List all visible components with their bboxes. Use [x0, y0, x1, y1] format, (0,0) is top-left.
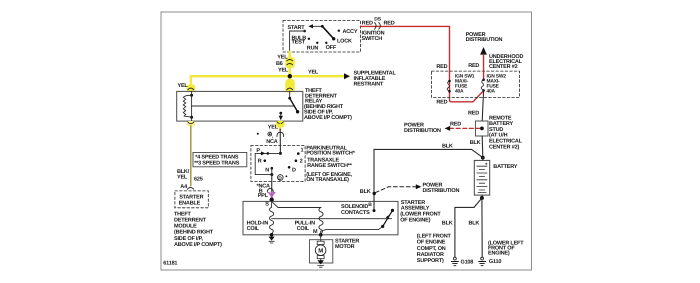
wire BLK horizontal to battery — [374, 144, 483, 158]
svg-text:DS: DS — [374, 17, 381, 23]
svg-text:B6: B6 — [276, 61, 283, 67]
svg-text:DISTRIBUTION: DISTRIBUTION — [404, 128, 441, 134]
svg-text:R: R — [258, 159, 262, 165]
svg-text:OF ENGINE): OF ENGINE) — [400, 218, 430, 224]
battery — [474, 158, 517, 195]
note box 4 speed trans — [193, 153, 247, 167]
svg-text:ENABLE: ENABLE — [179, 201, 201, 207]
yellow horizontal wire to SIR — [191, 75, 344, 77]
contact R — [258, 159, 266, 165]
wire from START contact to B6 terminal — [290, 31, 305, 52]
svg-text:SWITCH: SWITCH — [362, 36, 383, 42]
hold-in coil ground — [269, 233, 275, 243]
svg-text:RUN: RUN — [307, 46, 319, 52]
svg-text:40A: 40A — [455, 88, 464, 94]
starter motor ground — [317, 260, 324, 267]
svg-text:OF ENGINE: OF ENGINE — [417, 240, 446, 246]
power distribution dashed branch at starter — [376, 183, 460, 195]
starter enable dashed box — [175, 191, 208, 208]
solenoid contacts arm — [381, 209, 394, 228]
node junction on yellow wire — [288, 74, 292, 78]
svg-text:625: 625 — [194, 176, 203, 182]
contact D — [288, 166, 296, 173]
svg-text:COIL: COIL — [247, 226, 260, 232]
svg-text:MOTOR: MOTOR — [335, 244, 355, 250]
svg-text:YEL: YEL — [178, 83, 189, 89]
wire from switch to starter S terminal — [271, 175, 273, 193]
svg-text:40A: 40A — [487, 88, 496, 94]
wire S to pull-in coil — [272, 201, 321, 207]
wire BLK from fuse 2 to remote battery stud — [482, 90, 483, 121]
wire from relay to park/neutral switch — [279, 129, 281, 153]
svg-text:P: P — [256, 148, 260, 154]
starter assembly box — [243, 201, 398, 234]
svg-text:DISTRIBUTION: DISTRIBUTION — [466, 37, 503, 43]
yellow drop to relay switch — [287, 76, 293, 91]
svg-text:CENTER #2): CENTER #2) — [489, 144, 519, 150]
circled D indicator — [278, 175, 288, 181]
svg-text:2: 2 — [300, 159, 303, 165]
svg-text:N: N — [265, 168, 269, 174]
svg-text:BLK: BLK — [442, 144, 453, 150]
svg-text:D: D — [292, 167, 296, 173]
connector B6 — [276, 54, 293, 73]
wire from stud to battery junction — [481, 136, 484, 158]
relay internal wire to switch — [192, 105, 294, 107]
power distribution arrow (top) — [466, 32, 503, 80]
svg-text:CENTER #2: CENTER #2 — [489, 64, 518, 70]
svg-text:M: M — [318, 247, 323, 254]
fuse IGN SW2 MAXI-FUSE 40A — [481, 74, 506, 95]
node S terminal junction — [270, 198, 274, 202]
svg-text:TEST: TEST — [292, 40, 306, 46]
relay coil — [183, 91, 193, 121]
svg-text:BLK: BLK — [360, 189, 371, 195]
wire BLK/YEL 625 to theft deterrent module — [177, 126, 203, 186]
svg-text:RANGE SWITCH**: RANGE SWITCH** — [307, 163, 353, 169]
svg-text:SIDE OF I/P,: SIDE OF I/P, — [174, 236, 203, 242]
wire YEL from ignition B6 down to junction — [285, 52, 295, 93]
relay coil bottom connector — [187, 121, 196, 127]
node M and wire to contacts — [319, 226, 383, 236]
left front of engine label — [417, 234, 452, 264]
ground G110 — [479, 257, 486, 266]
ignition switch S1 box — [283, 21, 361, 53]
contact 2 — [295, 159, 303, 165]
svg-text:START: START — [288, 25, 306, 31]
svg-text:SUPPORT): SUPPORT) — [417, 258, 444, 264]
wire PPL — [258, 193, 275, 200]
svg-text:CONTACTS: CONTACTS — [341, 210, 370, 216]
relay switch arm — [288, 91, 299, 113]
svg-text:ABOVE I/P COMPT): ABOVE I/P COMPT) — [174, 242, 222, 248]
svg-text:ENGINE): ENGINE) — [488, 251, 510, 257]
connector A4 — [180, 184, 193, 190]
svg-text:61181: 61181 — [163, 261, 177, 267]
svg-text:**3 SPEED TRANS: **3 SPEED TRANS — [194, 161, 240, 167]
hold-in coil — [247, 201, 274, 234]
svg-text:(BEHIND RIGHT: (BEHIND RIGHT — [174, 230, 214, 236]
relay output contact with down arrow — [279, 112, 283, 121]
svg-text:RESTRAINT: RESTRAINT — [354, 82, 385, 88]
contact 1 — [297, 147, 304, 155]
ignition switch rotor arm and contacts — [303, 24, 340, 44]
contact N with junction — [265, 167, 273, 176]
svg-text:COMPT, ON: COMPT, ON — [417, 246, 446, 252]
svg-text:YEL: YEL — [277, 54, 288, 60]
svg-text:RED: RED — [468, 111, 479, 117]
svg-text:BLK: BLK — [469, 220, 480, 226]
connector DS — [374, 17, 381, 30]
fuse IGN SW1 MAXI-FUSE 40A — [447, 74, 475, 95]
starter assembly label — [400, 200, 441, 224]
svg-text:M: M — [313, 229, 318, 235]
svg-text:RED: RED — [450, 121, 461, 127]
svg-text:(LEFT FRONT: (LEFT FRONT — [417, 234, 452, 240]
theft deterrent relay box — [177, 91, 303, 121]
svg-text:YEL: YEL — [177, 174, 188, 180]
terminal B wire with node — [360, 149, 376, 212]
svg-text:B: B — [368, 202, 372, 208]
starter motor — [310, 235, 333, 263]
svg-text:RADIATOR: RADIATOR — [417, 252, 444, 258]
relay switch output connector YEL — [268, 121, 285, 131]
svg-text:BATTERY: BATTERY — [493, 164, 517, 170]
svg-text:DISTRIBUTION: DISTRIBUTION — [423, 188, 460, 194]
splice symbols and connector NCA above switch — [257, 132, 284, 145]
svg-text:BLK: BLK — [442, 220, 453, 226]
svg-text:S: S — [265, 202, 269, 208]
arrow to supplemental inflatable restraint — [344, 70, 396, 87]
yellow drop to relay coil — [178, 76, 196, 91]
svg-text:DETERRENT: DETERRENT — [174, 218, 207, 224]
svg-text:POSITION SWITCH*: POSITION SWITCH* — [306, 150, 356, 156]
solenoid contact rail — [272, 218, 392, 220]
svg-text:YEL: YEL — [268, 125, 279, 131]
svg-text:RED: RED — [384, 21, 395, 27]
svg-text:BLK: BLK — [470, 140, 481, 146]
battery negative wires — [442, 195, 484, 257]
svg-text:G110: G110 — [489, 259, 501, 265]
svg-text:RED: RED — [362, 21, 373, 27]
starter motor label — [335, 238, 359, 250]
svg-text:THEFT: THEFT — [174, 211, 192, 217]
connector NCA B below switch — [257, 184, 274, 195]
pull-in coil — [295, 208, 323, 235]
theft deterrent relay label — [304, 88, 352, 121]
ground G108 — [451, 257, 473, 266]
svg-text:ACCY: ACCY — [343, 29, 358, 35]
svg-text:STARTER: STARTER — [179, 195, 203, 201]
svg-text:G108: G108 — [461, 260, 474, 266]
park/neutral switch label — [306, 145, 356, 183]
svg-text:RED: RED — [436, 64, 447, 70]
svg-text:YEL: YEL — [308, 69, 319, 75]
node battery junction — [481, 156, 485, 160]
svg-text:1: 1 — [301, 147, 304, 153]
remote battery stud — [475, 115, 522, 150]
svg-text:RED: RED — [468, 63, 479, 69]
wire RED from ignition switch to underhood center — [361, 26, 484, 101]
svg-text:MODULE: MODULE — [174, 224, 197, 230]
svg-text:OFF: OFF — [326, 45, 337, 51]
power distribution dashed RED branch from stud — [404, 121, 480, 134]
svg-text:RED: RED — [436, 99, 447, 105]
lower left front of engine label — [488, 241, 524, 266]
svg-text:PPL: PPL — [258, 193, 269, 199]
svg-text:NCA: NCA — [266, 139, 278, 145]
underhood electrical center #2 box — [432, 54, 524, 98]
svg-text:ON TRANSAXLE): ON TRANSAXLE) — [306, 177, 349, 183]
svg-text:YEL: YEL — [278, 67, 289, 73]
solenoid contacts label — [341, 202, 372, 216]
park/neutral position switch box — [251, 146, 305, 182]
switch P line with arrow — [255, 148, 282, 174]
svg-text:LOCK: LOCK — [337, 39, 352, 45]
svg-text:ABOVE I/P COMPT): ABOVE I/P COMPT) — [304, 115, 352, 121]
ignition switch label — [362, 30, 385, 42]
theft deterrent module label — [174, 211, 222, 248]
svg-text:COIL: COIL — [297, 226, 310, 232]
